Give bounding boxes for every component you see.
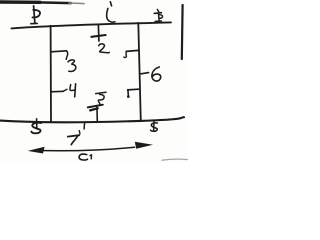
label 6: [152, 67, 161, 81]
label 2: [99, 44, 110, 53]
bottom rail (net GND): [0, 117, 184, 122]
label 7: [68, 131, 80, 145]
label 5 (above capacitor C1): [96, 92, 106, 105]
switch gate hook (lower, on right vertical): [127, 89, 139, 98]
top rail (net VDD): [12, 22, 172, 28]
switch gate hook 5 (upper, on right vertical): [124, 50, 138, 57]
clock phi top-left: [31, 6, 40, 24]
wire left vertical: [50, 26, 52, 122]
faint scan mark bottom-right: [162, 159, 188, 160]
label 1 (node at top rail): [107, 2, 115, 22]
dimension arrow for C1: [28, 142, 153, 154]
node tick 7 (below bottom rail): [83, 122, 86, 129]
label 3: [68, 60, 76, 72]
capacitor C1 plates and stem to bottom rail: [88, 105, 103, 122]
capacitor stub node 2 (from top rail): [91, 25, 105, 41]
right scan frame line: [181, 5, 184, 59]
switch gate hook 4 (on left vertical): [51, 89, 67, 92]
node tick 6: [141, 73, 149, 74]
clock phi bottom-left: [31, 119, 41, 134]
clock phi bottom-right: [151, 121, 158, 132]
switch gate hook 3 (on left vertical): [51, 51, 68, 60]
label C1: [79, 154, 92, 160]
top scan frame line: [0, 2, 84, 4]
label 4: [70, 84, 76, 97]
clock phi top-right: [154, 9, 162, 21]
wire right vertical: [138, 23, 141, 121]
hand-drawn switched-capacitor schematic: [0, 0, 188, 162]
